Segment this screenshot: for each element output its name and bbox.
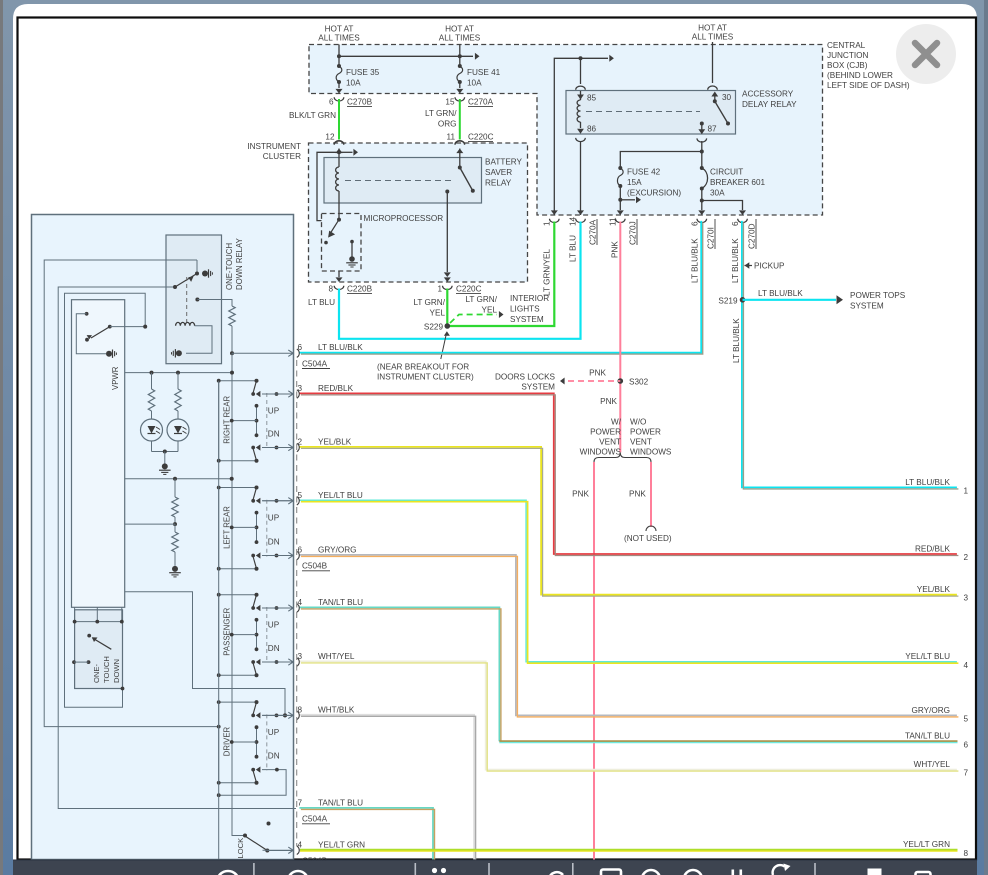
svg-text:BOX (CJB): BOX (CJB) — [827, 61, 868, 70]
svg-text:DRIVER: DRIVER — [223, 726, 232, 756]
svg-text:POWER: POWER — [590, 428, 621, 437]
wire PNK pin 11 down to S302 and brace — [619, 222, 621, 453]
splice S302 — [618, 378, 624, 384]
svg-text:LT BLU/BLK: LT BLU/BLK — [732, 318, 741, 363]
svg-text:RELAY: RELAY — [485, 179, 512, 188]
svg-text:FUSE 42: FUSE 42 — [627, 168, 661, 177]
svg-text:TAN/LT BLU: TAN/LT BLU — [318, 799, 363, 808]
svg-text:POWER: POWER — [630, 428, 661, 437]
svg-text:LT BLU/BLK: LT BLU/BLK — [758, 289, 803, 298]
svg-text:14: 14 — [569, 216, 578, 226]
svg-text:2: 2 — [298, 438, 303, 447]
svg-text:1: 1 — [543, 221, 552, 226]
svg-text:C270A: C270A — [589, 219, 598, 245]
svg-text:7: 7 — [298, 799, 303, 808]
fuse F42 — [618, 166, 622, 170]
one-touch relay output resistor — [195, 298, 199, 302]
row6 internal wire — [232, 352, 263, 354]
bus L3 to coil / one-touch box — [65, 293, 146, 707]
svg-text:4: 4 — [298, 598, 303, 607]
bus L2 to driver dn row7 — [58, 287, 296, 809]
svg-text:6: 6 — [964, 740, 969, 749]
svg-text:YEL: YEL — [482, 306, 498, 315]
wire fuse35 to connector — [338, 82, 340, 88]
LED 1 — [141, 419, 163, 441]
fuse F35 — [337, 64, 341, 68]
wire hot feed fuse41 — [459, 45, 461, 67]
switch block DRIVER — [219, 702, 257, 783]
svg-text:LEFT REAR: LEFT REAR — [223, 506, 232, 549]
svg-text:30A: 30A — [710, 189, 725, 198]
svg-text:WHT/YEL: WHT/YEL — [318, 652, 355, 661]
svg-text:HOT AT: HOT AT — [445, 25, 474, 34]
svg-text:JUNCTION: JUNCTION — [827, 51, 868, 60]
one-touch relay mech link — [186, 277, 188, 322]
svg-text:LEFT SIDE OF DASH): LEFT SIDE OF DASH) — [827, 81, 910, 90]
svg-text:ALL TIMES: ALL TIMES — [692, 33, 734, 42]
wire PNK w/o branch to not used — [650, 462, 652, 527]
split brace — [594, 453, 651, 462]
svg-text:BATTERY: BATTERY — [485, 158, 523, 167]
svg-text:DOORS LOCKS: DOORS LOCKS — [495, 373, 556, 382]
svg-text:CIRCUIT: CIRCUIT — [710, 168, 743, 177]
svg-text:UP: UP — [268, 621, 280, 630]
svg-text:8: 8 — [964, 849, 969, 858]
wire LT BLU cyan C220B to C270A pin14 — [339, 222, 581, 339]
wire batt saver sw to C220C pin1 — [444, 272, 451, 277]
svg-text:10A: 10A — [346, 79, 361, 88]
svg-text:WINDOWS: WINDOWS — [580, 448, 622, 457]
svg-text:10A: 10A — [467, 79, 482, 88]
switch block LEFT REAR — [219, 488, 257, 569]
switch block PASSENGER — [219, 595, 257, 676]
wire PNK w/ power vent windows branch — [593, 462, 595, 860]
svg-text:C220C: C220C — [468, 133, 494, 142]
svg-text:LT BLU/BLK: LT BLU/BLK — [318, 343, 363, 352]
wire 87 to fuse42 branch — [700, 150, 704, 154]
svg-text:LT BLU/BLK: LT BLU/BLK — [905, 478, 950, 487]
wire hot feed to pin30 — [712, 42, 714, 83]
svg-text:C504B: C504B — [302, 562, 328, 571]
svg-text:SYSTEM: SYSTEM — [850, 302, 884, 311]
svg-text:W/: W/ — [611, 418, 622, 427]
svg-text:ALL TIMES: ALL TIMES — [318, 34, 360, 43]
svg-text:HOT AT: HOT AT — [698, 24, 727, 33]
svg-text:YEL/BLK: YEL/BLK — [318, 438, 352, 447]
svg-text:C504A: C504A — [302, 359, 328, 368]
dashed PNK to doors locks — [568, 380, 620, 382]
one-touch relay coil — [176, 322, 195, 325]
master switch box — [32, 215, 294, 860]
svg-text:DOWN: DOWN — [112, 659, 121, 683]
svg-text:BREAKER 601: BREAKER 601 — [710, 178, 766, 187]
wire breaker to pin6 C270D — [702, 201, 743, 211]
svg-text:RED/BLK: RED/BLK — [915, 544, 951, 553]
svg-text:30: 30 — [722, 93, 732, 102]
svg-text:LT BLU/BLK: LT BLU/BLK — [691, 238, 700, 283]
instrument cluster dashed box — [309, 143, 528, 282]
bottom toolbar — [13, 860, 977, 861]
svg-text:CLUSTER: CLUSTER — [263, 152, 301, 161]
svg-text:(BEHIND LOWER: (BEHIND LOWER — [827, 71, 893, 80]
relay dashed link (accessory) — [586, 111, 700, 113]
driver sub-switch — [85, 312, 89, 316]
svg-text:WHT/BLK: WHT/BLK — [318, 705, 355, 714]
(NOT USED) cap — [646, 526, 656, 531]
svg-text:LT GRN/YEL: LT GRN/YEL — [543, 249, 552, 296]
svg-text:ACCESSORY: ACCESSORY — [742, 90, 794, 99]
svg-text:PNK: PNK — [600, 397, 617, 406]
svg-text:LIGHTS: LIGHTS — [510, 305, 540, 314]
dashed green to interior lights — [450, 315, 497, 324]
one-touch down relay box — [166, 235, 222, 364]
svg-text:4: 4 — [298, 840, 303, 849]
svg-text:6: 6 — [329, 98, 334, 107]
svg-text:2: 2 — [964, 553, 969, 562]
inner sub box (driver circuit) — [72, 300, 125, 608]
wire WHT/BLK row — [299, 715, 474, 860]
microprocessor ground leg — [350, 240, 354, 244]
CJB + fuse strip dashed box — [309, 45, 823, 216]
LED common ground — [151, 441, 153, 452]
svg-text:6: 6 — [298, 343, 303, 352]
svg-text:YEL/LT GRN: YEL/LT GRN — [903, 840, 950, 849]
splice S219 — [740, 297, 746, 303]
svg-text:ONE-TOUCH: ONE-TOUCH — [225, 243, 234, 290]
svg-text:PASSENGER: PASSENGER — [223, 607, 232, 655]
svg-text:11: 11 — [447, 133, 456, 142]
svg-text:C270J: C270J — [629, 221, 638, 245]
svg-text:GRY/ORG: GRY/ORG — [911, 706, 950, 715]
svg-text:W/O: W/O — [630, 418, 646, 427]
LED 2 — [167, 419, 189, 441]
svg-text:PNK: PNK — [589, 369, 606, 378]
wire micro to C220B — [338, 271, 340, 277]
microprocessor switch — [337, 218, 341, 222]
svg-text:YEL/LT BLU: YEL/LT BLU — [318, 491, 363, 500]
svg-text:FUSE 35: FUSE 35 — [346, 68, 380, 77]
wire GRY/ORG row — [299, 555, 957, 716]
svg-text:C504A: C504A — [302, 815, 328, 824]
wire TAN/LT BLU row (driver dn) — [299, 808, 433, 860]
svg-text:TAN/LT BLU: TAN/LT BLU — [318, 598, 363, 607]
svg-text:1: 1 — [964, 487, 969, 496]
svg-text:3: 3 — [298, 652, 303, 661]
svg-text:LT GRN/: LT GRN/ — [425, 109, 457, 118]
wire LT GRN/ORG (green) — [459, 99, 461, 140]
toolbar icon tops — [217, 870, 931, 875]
svg-text:3: 3 — [964, 594, 969, 603]
bus B (VPWR distribution) — [230, 351, 234, 355]
svg-text:WHT/YEL: WHT/YEL — [914, 760, 951, 769]
svg-text:LT BLU: LT BLU — [308, 298, 335, 307]
svg-text:15: 15 — [445, 98, 455, 107]
svg-text:S302: S302 — [629, 378, 649, 387]
svg-text:RIGHT REAR: RIGHT REAR — [223, 395, 232, 443]
relay coil (accessory delay) pins 85/86 — [580, 58, 582, 84]
svg-text:6: 6 — [731, 221, 740, 226]
wire LT GRN/YEL green C220C to pin1 via S229 — [447, 222, 554, 327]
svg-text:WINDOWS: WINDOWS — [630, 448, 672, 457]
svg-text:LT GRN/: LT GRN/ — [465, 295, 497, 304]
svg-text:INTERIOR: INTERIOR — [510, 294, 549, 303]
svg-text:VENT: VENT — [599, 438, 621, 447]
svg-text:6: 6 — [298, 546, 303, 555]
svg-text:UP: UP — [268, 407, 280, 416]
svg-text:DN: DN — [268, 430, 280, 439]
svg-text:DN: DN — [268, 538, 280, 547]
fuse F41 — [458, 64, 462, 68]
wire YEL/LT GRN row — [300, 849, 958, 851]
wire YEL/BLK row — [299, 447, 957, 595]
svg-text:SAVER: SAVER — [485, 168, 512, 177]
relay pin 87 — [700, 122, 704, 126]
svg-text:11: 11 — [609, 217, 618, 226]
wire LT BLU/BLK row6 master to C270I pin6 — [299, 221, 701, 353]
svg-text:S229: S229 — [424, 323, 444, 332]
relay switch pin 30 — [708, 86, 718, 90]
svg-text:86: 86 — [587, 125, 597, 134]
svg-text:YEL/BLK: YEL/BLK — [917, 585, 951, 594]
svg-text:YEL/LT GRN: YEL/LT GRN — [318, 840, 365, 849]
wire hot feed fuse35 — [338, 45, 340, 67]
indicator resistor 1 — [150, 371, 154, 375]
svg-text:1: 1 — [437, 285, 442, 294]
svg-text:POWER TOPS: POWER TOPS — [850, 291, 906, 300]
svg-text:12: 12 — [325, 133, 335, 142]
wire fuse42 to pin 11 — [619, 186, 621, 210]
svg-text:TOUCH: TOUCH — [102, 656, 111, 683]
wire cluster feed left — [338, 149, 340, 168]
svg-text:C220C: C220C — [456, 285, 482, 294]
wire bus between fuses with arrow — [339, 55, 473, 57]
one-touch switch interconnect — [74, 607, 76, 621]
svg-text:C220B: C220B — [347, 285, 373, 294]
svg-text:3: 3 — [298, 384, 303, 393]
switch block RIGHT REAR — [219, 381, 257, 461]
svg-text:PNK: PNK — [611, 241, 620, 258]
svg-text:ONE-: ONE- — [92, 664, 101, 683]
svg-text:CENTRAL: CENTRAL — [827, 41, 866, 50]
svg-text:87: 87 — [708, 125, 718, 134]
svg-text:6: 6 — [691, 221, 700, 226]
wire inner box to one-touch block — [125, 592, 285, 716]
svg-text:(EXCURSION): (EXCURSION) — [627, 189, 681, 198]
svg-text:LT BLU/BLK: LT BLU/BLK — [731, 238, 740, 283]
wire YEL/LT BLU row — [299, 500, 957, 662]
svg-text:ORG: ORG — [438, 120, 457, 129]
svg-text:8: 8 — [328, 285, 333, 294]
svg-text:MICROPROCESSOR: MICROPROCESSOR — [364, 214, 444, 223]
svg-text:PNK: PNK — [572, 490, 589, 499]
relay coil (battery saver) — [336, 167, 339, 191]
svg-text:C270B: C270B — [347, 98, 373, 107]
connector C504 dashed boundary — [296, 360, 298, 846]
svg-text:15A: 15A — [627, 178, 642, 187]
svg-text:C270A: C270A — [468, 98, 494, 107]
svg-text:DOWN RELAY: DOWN RELAY — [235, 237, 244, 290]
svg-text:SYSTEM: SYSTEM — [510, 315, 544, 324]
label PICKUP with arrow — [745, 262, 750, 268]
one-touch down switch — [87, 634, 91, 638]
LOCK switch — [243, 834, 247, 838]
splice S229 — [445, 323, 451, 329]
svg-text:DN: DN — [268, 752, 280, 761]
relay dashed link — [345, 180, 452, 182]
note near breakout + arrow — [441, 334, 447, 359]
svg-text:YEL: YEL — [430, 309, 446, 318]
svg-text:PICKUP: PICKUP — [754, 262, 785, 271]
svg-text:INSTRUMENT: INSTRUMENT — [247, 142, 301, 151]
svg-text:UP: UP — [268, 728, 280, 737]
VPWR feed bus — [125, 372, 232, 374]
svg-text:HOT AT: HOT AT — [325, 25, 354, 34]
svg-text:VENT: VENT — [630, 438, 652, 447]
CJB internal feed, pin1 riser — [554, 58, 608, 215]
driver DN loop to bus A — [219, 770, 286, 796]
svg-text:(NEAR BREAKOUT FOR: (NEAR BREAKOUT FOR — [377, 363, 469, 372]
svg-text:LOCK: LOCK — [236, 838, 245, 859]
svg-text:VPWR: VPWR — [111, 366, 120, 390]
svg-text:DN: DN — [268, 644, 280, 653]
close button — [896, 24, 956, 84]
svg-text:FUSE 41: FUSE 41 — [467, 68, 501, 77]
svg-text:DELAY RELAY: DELAY RELAY — [742, 100, 797, 109]
svg-text:INSTRUMENT CLUSTER): INSTRUMENT CLUSTER) — [377, 373, 474, 382]
one-touch relay switch — [196, 260, 198, 274]
wire LT BLU/BLK to power tops — [743, 299, 837, 301]
one-touch down switch box — [75, 610, 123, 689]
svg-text:C270I: C270I — [707, 227, 716, 249]
svg-text:TAN/LT BLU: TAN/LT BLU — [905, 732, 950, 741]
wire BLK/LT GRN (green) — [338, 99, 340, 140]
svg-text:YEL/LT BLU: YEL/LT BLU — [905, 652, 950, 661]
wire WHT/YEL row — [299, 661, 957, 769]
lamp dropping resistors chain — [125, 478, 232, 480]
wire RED/BLK row — [299, 393, 957, 554]
wire fuse41 to connector — [459, 82, 461, 88]
svg-text:GRY/ORG: GRY/ORG — [318, 546, 357, 555]
svg-text:BLK/LT GRN: BLK/LT GRN — [289, 111, 336, 120]
battery saver relay switch — [459, 149, 461, 168]
svg-text:SYSTEM: SYSTEM — [521, 383, 555, 392]
microprocessor dashed box — [322, 214, 362, 272]
svg-text:5: 5 — [964, 715, 969, 724]
svg-text:LT BLU: LT BLU — [569, 235, 578, 262]
svg-text:S219: S219 — [718, 297, 738, 306]
svg-text:ALL TIMES: ALL TIMES — [439, 34, 481, 43]
svg-text:C270D: C270D — [748, 223, 757, 249]
svg-text:LT GRN/: LT GRN/ — [413, 298, 445, 307]
svg-text:5: 5 — [298, 491, 303, 500]
svg-text:RED/BLK: RED/BLK — [318, 384, 354, 393]
bus L1 to one-touch relay switch — [44, 260, 219, 727]
accessory delay relay box — [566, 91, 736, 135]
svg-text:7: 7 — [964, 769, 969, 778]
indicator resistor 2 — [176, 371, 180, 375]
svg-text:PNK: PNK — [629, 490, 646, 499]
one-touch relay contact w/ ground — [202, 271, 208, 277]
svg-text:(NOT USED): (NOT USED) — [624, 534, 672, 543]
circuit breaker 601 — [700, 166, 704, 170]
svg-text:8: 8 — [298, 705, 303, 714]
wire LT BLU/BLK C270D pin6 down to row 1 — [742, 221, 957, 488]
svg-text:85: 85 — [587, 94, 597, 103]
bus A vertical — [218, 381, 220, 860]
wire TAN/LT BLU row (passenger) — [299, 607, 499, 741]
svg-text:UP: UP — [268, 513, 280, 522]
battery saver relay box — [324, 158, 482, 204]
svg-text:4: 4 — [964, 661, 969, 670]
